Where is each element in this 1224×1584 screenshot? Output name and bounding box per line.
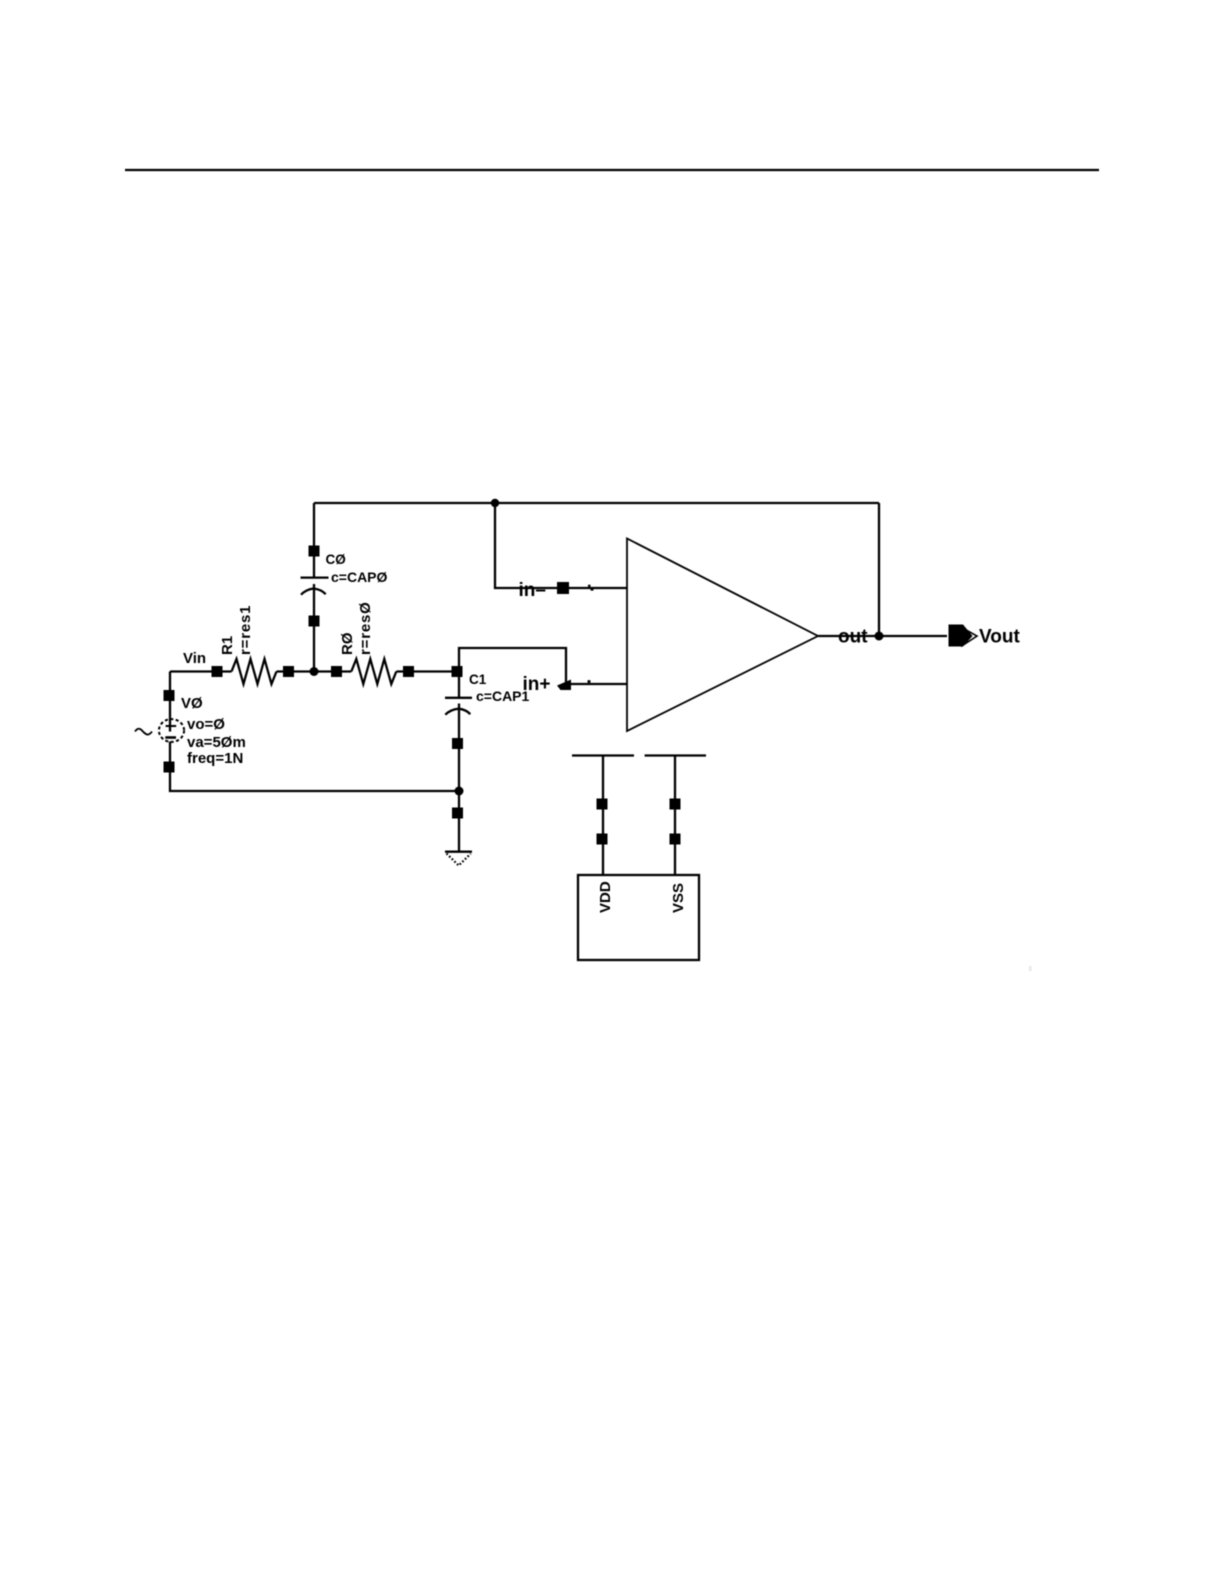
svg-text:r=resØ: r=resØ [357, 601, 374, 655]
svg-text:freq=1N: freq=1N [187, 750, 243, 767]
svg-text:va=5Øm: va=5Øm [187, 734, 246, 751]
svg-text:VØ: VØ [181, 695, 203, 712]
svg-text:in+: in+ [523, 674, 551, 695]
svg-text:c=CAP1: c=CAP1 [476, 688, 530, 704]
svg-text:R1: R1 [219, 636, 236, 655]
svg-text:VSS: VSS [670, 883, 687, 913]
svg-text:c=CAPØ: c=CAPØ [331, 569, 388, 585]
svg-text:r=res1: r=res1 [237, 605, 254, 655]
svg-text:vo=Ø: vo=Ø [187, 716, 225, 733]
svg-text:CØ: CØ [326, 552, 346, 567]
svg-text:RØ: RØ [339, 632, 356, 655]
svg-text:out: out [838, 627, 868, 648]
svg-text:VDD: VDD [597, 881, 614, 913]
svg-text:C1: C1 [469, 672, 487, 687]
svg-text:Vout: Vout [979, 626, 1020, 647]
svg-text:in–: in– [519, 580, 546, 601]
svg-text:Vin: Vin [183, 650, 206, 667]
